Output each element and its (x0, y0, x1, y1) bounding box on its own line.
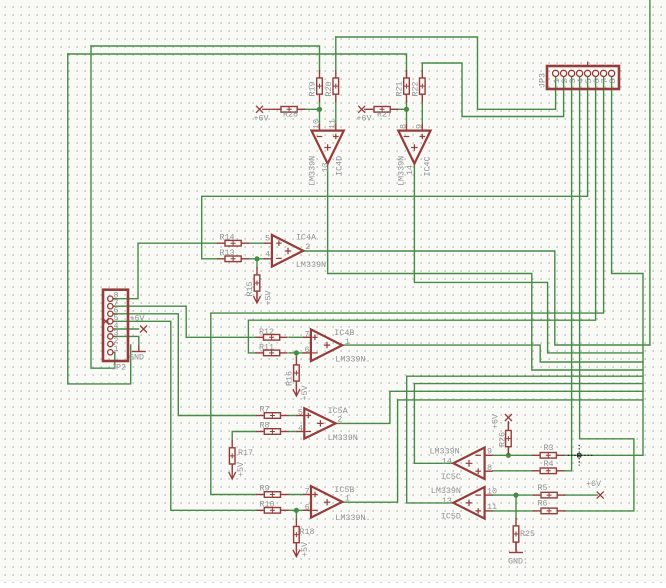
svg-text:R20: R20 (324, 81, 334, 96)
svg-text:R17: R17 (238, 448, 253, 458)
svg-text:8: 8 (398, 124, 408, 129)
svg-text:9: 9 (415, 124, 425, 129)
svg-text:IC5C: IC5C (441, 472, 461, 482)
svg-text:R12: R12 (259, 327, 274, 337)
svg-text:5: 5 (265, 234, 270, 244)
svg-text:R21: R21 (395, 81, 405, 96)
svg-text:7: 7 (305, 487, 310, 497)
svg-text:4: 4 (298, 424, 303, 434)
svg-text:13: 13 (442, 496, 452, 506)
svg-text:LM339N: LM339N (308, 156, 318, 186)
svg-text:1: 1 (345, 337, 350, 347)
svg-text:2: 2 (305, 242, 310, 252)
svg-text:IC4D: IC4D (335, 156, 345, 176)
svg-text:R26: R26 (498, 432, 508, 447)
svg-text:+5V: +5V (236, 462, 246, 477)
svg-text:R18: R18 (300, 527, 315, 537)
svg-text:R10: R10 (260, 500, 275, 510)
svg-text:+5V: +5V (300, 542, 310, 557)
svg-text:R3: R3 (544, 443, 554, 453)
svg-text:8: 8 (487, 463, 492, 473)
svg-text:+6V: +6V (491, 414, 501, 429)
svg-text:LM339N: LM339N (296, 260, 326, 270)
svg-text:IC5D: IC5D (441, 511, 461, 521)
svg-text:R11: R11 (259, 342, 274, 352)
svg-text:+6V: +6V (357, 114, 372, 124)
svg-text:LM339N: LM339N (430, 446, 460, 456)
svg-text:7: 7 (305, 330, 310, 340)
svg-text:13: 13 (320, 162, 330, 172)
svg-text:LM339N.: LM339N. (335, 355, 370, 365)
svg-text:R19: R19 (308, 81, 318, 96)
svg-text:R27: R27 (377, 110, 392, 120)
svg-text:R25: R25 (520, 529, 535, 539)
svg-text:GND: GND (129, 353, 144, 363)
svg-text:R16: R16 (284, 371, 294, 386)
svg-text:2: 2 (337, 415, 342, 425)
svg-text:R22: R22 (411, 81, 421, 96)
svg-text:R9: R9 (260, 484, 270, 494)
svg-text:JP3: JP3 (538, 73, 548, 88)
svg-text:8: 8 (608, 78, 618, 83)
svg-text:11: 11 (487, 502, 497, 512)
svg-text:4: 4 (265, 249, 270, 259)
svg-text:JP2: JP2 (111, 363, 126, 373)
svg-text:11: 11 (328, 119, 338, 129)
svg-text:R4: R4 (544, 459, 554, 469)
svg-text:R8: R8 (260, 421, 270, 431)
svg-text:6: 6 (305, 345, 310, 355)
svg-text:+6V: +6V (586, 479, 601, 489)
svg-text:10: 10 (311, 119, 321, 129)
svg-text:14: 14 (442, 456, 452, 466)
svg-text:R13: R13 (220, 248, 235, 258)
svg-text:10: 10 (487, 486, 497, 496)
svg-text:+6V: +6V (130, 314, 145, 324)
svg-text:14: 14 (405, 165, 415, 175)
svg-text:GND.: GND. (508, 557, 528, 567)
svg-text:9: 9 (487, 447, 492, 457)
svg-text:R15: R15 (245, 281, 255, 296)
svg-text:LM339N: LM339N (431, 486, 461, 496)
svg-text:1: 1 (114, 344, 119, 354)
svg-text:LM339N.: LM339N. (335, 513, 370, 523)
svg-text:+6V: +6V (254, 114, 269, 124)
svg-text:R7: R7 (260, 405, 270, 415)
svg-text:6: 6 (305, 502, 310, 512)
svg-text:R14: R14 (220, 232, 235, 242)
svg-text:R28: R28 (283, 110, 298, 120)
svg-text:1: 1 (345, 494, 350, 504)
svg-text:IC4A: IC4A (296, 232, 317, 242)
svg-text:5: 5 (298, 408, 303, 418)
svg-text:IC4C: IC4C (423, 156, 433, 176)
svg-text:+5V: +5V (264, 290, 274, 305)
svg-text:+5V: +5V (300, 385, 310, 400)
svg-text:R6: R6 (538, 498, 548, 508)
svg-text:LM339N: LM339N (328, 433, 358, 443)
svg-text:R5: R5 (538, 483, 548, 493)
